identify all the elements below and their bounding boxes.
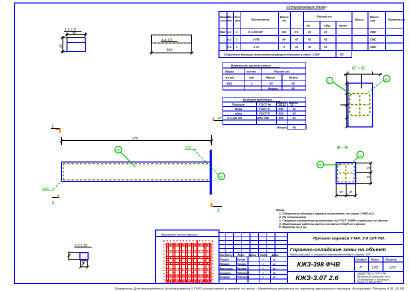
svg-text:С1: С1: [295, 30, 299, 34]
svg-text:816: 816: [167, 48, 173, 52]
svg-text:Формочка: Для внутреннего испо: Формочка: Для внутреннего использования …: [115, 286, 404, 290]
detail 1-1 left dimension: [61, 36, 67, 53]
svg-text:Фрагмент сетки каркаса: Фрагмент сетки каркаса: [161, 232, 198, 236]
svg-text:ед.: ед.: [283, 19, 287, 23]
spec table header texts: [220, 15, 406, 28]
section B-B callout top: [352, 151, 364, 163]
mesh dotted border: [164, 241, 213, 283]
title block organization: [357, 272, 391, 284]
svg-text:п.2: п.2: [227, 38, 231, 42]
svg-text:СМС: СМС: [370, 30, 377, 34]
detail 1-1 label: [64, 28, 82, 32]
svg-text:41: 41: [292, 116, 297, 120]
svg-text:С-1.АIII ОЛ: С-1.АIII ОЛ: [248, 30, 263, 34]
svg-text:Р: Р: [360, 265, 363, 270]
detail 2-2 top bar outline: [68, 252, 89, 261]
svg-text:Масса: Масса: [266, 76, 275, 80]
svg-text:Листов: Листов: [385, 258, 397, 262]
section C-C left dimension: [340, 74, 349, 128]
svg-text:КЖЗ-398 ФЧВ: КЖЗ-398 ФЧВ: [297, 262, 341, 268]
svg-text:Сборочные единицы металлоконст: Сборочные единицы металлоконструкций пок…: [224, 53, 320, 57]
beam leader to callout 2: [194, 150, 218, 175]
svg-text:ГОСТ-№: ГОСТ-№: [259, 102, 272, 106]
svg-text:41: 41: [294, 45, 299, 49]
section B-B rebar cage dashed: [338, 164, 355, 182]
svg-text:45: 45: [367, 166, 371, 170]
steel list table texts: [225, 64, 298, 91]
title block header texts: [220, 253, 280, 257]
svg-text:42: 42: [292, 111, 297, 115]
svg-text:84: 84: [283, 38, 287, 42]
svg-text:Белов: Белов: [237, 257, 245, 261]
svg-text:пв: пв: [116, 148, 120, 152]
svg-text:Расход ст.: Расход ст.: [317, 15, 333, 19]
title block name rows: [219, 257, 288, 284]
svg-text:Спецификация балки: Спецификация балки: [287, 4, 328, 9]
svg-text:45: 45: [269, 82, 274, 86]
title block outer: [219, 232, 404, 283]
svg-text:Ведомость расхода стали: Ведомость расхода стали: [231, 64, 271, 68]
svg-text:СМС: СМС: [370, 38, 377, 42]
svg-text:Провер.: Провер.: [220, 262, 231, 266]
svg-text:41: 41: [323, 30, 328, 34]
beam end plate rebar caps: [210, 150, 212, 195]
svg-text:4-4 1:5: 4-4 1:5: [162, 38, 173, 42]
section B-B right dimension: [356, 162, 373, 185]
svg-text:Дата: Дата: [271, 253, 280, 257]
title block stage header: [356, 258, 397, 262]
spec table data: [220, 30, 378, 57]
detail 2-2 lower square: [79, 261, 89, 269]
svg-text:250: 250: [278, 116, 284, 120]
svg-text:Всего: Всего: [289, 76, 298, 80]
svg-text:2-11: 2-11: [253, 45, 260, 49]
svg-text:Ø1вв: Ø1вв: [235, 107, 243, 111]
title block stage values: [360, 264, 397, 269]
svg-text:шт: шт: [249, 76, 255, 80]
svg-text:Выборка арматуры: Выборка арматуры: [243, 98, 273, 102]
svg-text:ø2вв: ø2вв: [235, 111, 242, 115]
beam callout 2: [218, 173, 225, 180]
beam end plate (thick blue): [210, 150, 212, 194]
svg-text:Консульт.: Консульт.: [220, 266, 234, 270]
svg-text:Стадия: Стадия: [356, 258, 367, 262]
svg-text:Обозначение: Обозначение: [251, 18, 270, 22]
svg-text:Кол.уч: Кол.уч: [226, 253, 235, 257]
steel list table title row: [223, 62, 306, 90]
detail 1-1 body (blue): [67, 42, 85, 51]
svg-text:СМС: СМС: [370, 45, 377, 49]
detail 4-4 rebar dashes bottom: [152, 42, 191, 44]
svg-text:Н.контр.: Н.контр.: [220, 271, 232, 275]
svg-text:С - С: С - С: [352, 66, 366, 71]
svg-text:41: 41: [307, 45, 312, 49]
detail 4-4 rebar dashes top: [152, 34, 191, 36]
section C-C callout left: [327, 77, 352, 95]
section C-C callout right: [368, 75, 390, 92]
svg-text:пв: пв: [219, 175, 223, 179]
detail 1-1 top dimension: [66, 33, 87, 37]
mesh vertical band rungs: [168, 243, 211, 282]
svg-text:Позиция: Позиция: [232, 102, 245, 106]
svg-text:45: 45: [349, 190, 353, 194]
beam green note bottom left: [41, 187, 53, 191]
svg-text:п.1: п.1: [227, 30, 231, 34]
svg-text:41: 41: [292, 107, 297, 111]
beam outline: [62, 162, 210, 181]
svg-text:41: 41: [307, 30, 312, 34]
section mark 1 top: [51, 124, 60, 133]
detail 1-1 section top plate (black): [67, 38, 85, 43]
svg-text:40: 40: [73, 31, 77, 35]
mesh red grid horizontal bands: [166, 244, 212, 282]
svg-text:ГОСТ-Р: ГОСТ-Р: [259, 111, 270, 115]
title block revision grid: [219, 232, 288, 256]
svg-text:Обломов: Обломов: [237, 271, 249, 275]
title block right rows: [288, 244, 404, 283]
svg-text:кол-во: кол-во: [247, 70, 257, 74]
svg-text:Примечание: Примечание: [388, 18, 406, 22]
svg-text:42: 42: [323, 38, 328, 42]
svg-text:ед.: ед.: [307, 24, 311, 28]
svg-text:ФБ1: ФБ1: [220, 30, 226, 34]
weld mark left of rebar table: [213, 117, 223, 121]
beam callout 1: [115, 146, 136, 167]
svg-text:1: 1: [328, 79, 330, 83]
svg-text:175: 175: [132, 137, 138, 141]
svg-text:42: 42: [307, 38, 312, 42]
svg-text:45: 45: [367, 175, 371, 179]
svg-text:Лист: Лист: [237, 253, 246, 257]
svg-text:Разраб.: Разраб.: [220, 257, 230, 261]
svg-text:С-1.АIII ОЛ: С-1.АIII ОЛ: [227, 116, 243, 120]
svg-text:ФБ1: ФБ1: [227, 82, 233, 86]
svg-text:п.3: п.3: [227, 45, 231, 49]
svg-text:134: 134: [282, 30, 287, 34]
svg-text:№док: №док: [249, 253, 257, 257]
spec table grid: [219, 12, 404, 58]
svg-text:2-ПВ: 2-ПВ: [252, 38, 260, 42]
detail 4-4 body (blue with rebar): [151, 35, 191, 43]
svg-text:Лист: Лист: [370, 258, 379, 262]
svg-text:Гаражно-складские зоны на объе: Гаражно-складские зоны на объект: [290, 246, 386, 252]
svg-text:шт: шт: [235, 19, 240, 23]
svg-text:Марка: Марка: [225, 70, 234, 74]
section C-C rebar cage dashed: [350, 94, 370, 116]
mesh bold vertical bar: [196, 241, 198, 284]
section B-B bottom dimension: [335, 184, 357, 197]
beam rebar dashes bottom: [63, 179, 209, 181]
beam rebar dashes top: [63, 163, 209, 165]
svg-text:5. Монтаж по 1 гр.: 5. Монтаж по 1 гр.: [279, 225, 307, 229]
svg-text:Изм: Изм: [220, 253, 225, 257]
detail 2-2 blue square: [80, 253, 88, 260]
section B-B concrete outline: [336, 163, 355, 184]
detail 4-4 lower dimension box: [150, 35, 194, 54]
svg-text:45: 45: [291, 87, 296, 91]
detail 2-2 label: [74, 243, 92, 247]
rebar selection table: [223, 97, 306, 129]
mesh red grid vertical bands: [167, 243, 211, 283]
main beam top dimension: [60, 135, 213, 145]
svg-text:2-2 1:10: 2-2 1:10: [74, 243, 88, 247]
svg-text:КЖЗ-3.07 2.6: КЖЗ-3.07 2.6: [296, 276, 340, 282]
svg-text:Смирн.: Смирн.: [237, 262, 247, 266]
svg-text:Новая д.1 МР-Д-7571: Новая д.1 МР-Д-7571: [357, 281, 382, 284]
svg-text:эл-та: эл-та: [226, 76, 235, 80]
section C-C top dimension: [344, 72, 382, 89]
svg-text:45: 45: [59, 44, 63, 48]
section B-B callout left: [317, 161, 341, 168]
svg-text:Подп.: Подп.: [260, 253, 268, 257]
section mark 1 bottom: [52, 195, 60, 205]
svg-text:пв: пв: [358, 153, 362, 157]
svg-text:Итого: Итого: [277, 125, 287, 129]
svg-text:42: 42: [294, 38, 299, 42]
svg-text:В - В: В - В: [337, 145, 348, 150]
svg-text:Прокат каркаса ГМ4. УЗ ОЛ-7М.: Прокат каркаса ГМ4. УЗ ОЛ-7М.: [313, 235, 385, 240]
section C-C concrete outline: [348, 83, 373, 127]
svg-text:пв: пв: [318, 163, 322, 167]
svg-text:250: 250: [278, 111, 284, 115]
svg-text:120: 120: [389, 264, 396, 269]
svg-text:Расход ст.: Расход ст.: [274, 70, 290, 74]
svg-text:Козлов: Козлов: [237, 266, 247, 270]
svg-text:250: 250: [278, 107, 284, 111]
section mark 2 right: [211, 203, 222, 213]
svg-text:общ.: общ.: [324, 24, 331, 28]
title block names: [220, 257, 276, 279]
mesh fragment box: [155, 230, 219, 283]
svg-text:ГОСТ-Р: ГОСТ-Р: [259, 107, 270, 111]
beam rebar dashes left end: [62, 164, 64, 181]
svg-text:45: 45: [292, 125, 297, 129]
spec table title: [286, 4, 327, 9]
svg-text:Утверд.: Утверд.: [220, 275, 231, 279]
rebar selection texts: [227, 98, 298, 130]
beam green note right: [184, 146, 196, 150]
svg-text:ВТС-500: ВТС-500: [258, 116, 270, 120]
svg-text:Обломов: Обломов: [237, 275, 249, 279]
svg-text:41: 41: [323, 45, 328, 49]
svg-text:45: 45: [291, 82, 296, 86]
beam leader bottom left corner: [54, 181, 62, 190]
svg-text:Итого: Итого: [268, 87, 278, 91]
svg-text:105: 105: [372, 264, 379, 269]
svg-text:2: 2: [216, 208, 220, 213]
detail 4-4 label: [161, 38, 178, 42]
svg-text:всего: всего: [339, 24, 347, 28]
svg-text:пв: пв: [384, 77, 388, 81]
notes list: [276, 208, 388, 229]
svg-text:Масса: Масса: [355, 18, 364, 22]
svg-text:45: 45: [340, 190, 344, 194]
mesh red band rungs: [166, 245, 211, 281]
svg-text:Монолитный и сборный железобет: Монолитный и сборный железобетонный карк…: [290, 253, 370, 257]
svg-text:изд.: изд.: [370, 19, 376, 23]
